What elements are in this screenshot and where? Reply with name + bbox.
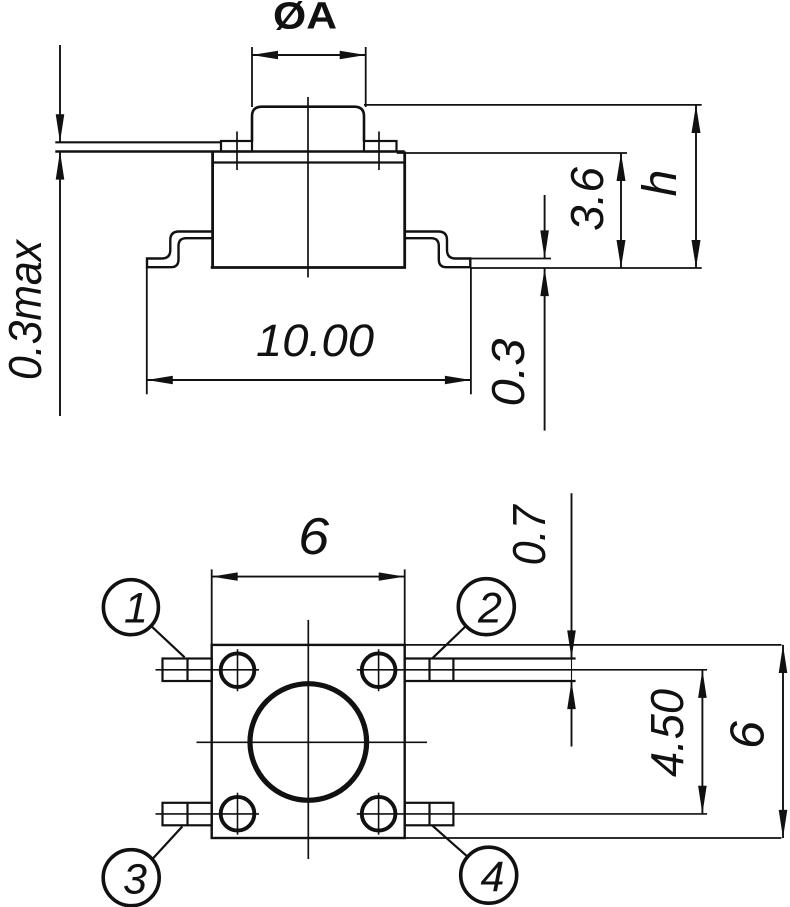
dimension 10.00 extension line left	[146, 268, 148, 394]
rivet circle bottom-left	[221, 797, 255, 831]
dimension OA line	[252, 54, 366, 56]
right cover tab	[364, 141, 397, 152]
leader 4	[432, 825, 468, 857]
rivet circle bottom-right	[362, 797, 396, 831]
OA arrow left	[252, 51, 278, 59]
0.3 arrow upper	[540, 230, 549, 258]
body right side	[403, 152, 406, 268]
body square	[212, 645, 405, 838]
svg-text:ØA: ØA	[273, 0, 337, 38]
dimension 6 right line	[782, 645, 784, 838]
lead 4 (bottom-right)	[405, 803, 454, 826]
rivet TR vertical crosshair	[378, 649, 380, 691]
dimension 4.50 line	[701, 670, 703, 814]
callout circle 3	[103, 850, 159, 906]
pin row centerline bottom-left	[156, 813, 260, 815]
svg-text:0.3: 0.3	[482, 338, 534, 406]
6 top arrow right	[379, 572, 405, 580]
left tab centerline tick	[236, 132, 238, 171]
pin row centerline top-right (also 4.50 extension)	[357, 669, 707, 671]
centerline vertical	[307, 620, 309, 859]
lead 1 (top-left)	[163, 659, 212, 682]
lead 2 divider	[428, 659, 430, 682]
center push button circle	[250, 684, 367, 801]
rivet circle top-right	[362, 653, 396, 687]
rivet BL vertical crosshair	[237, 793, 239, 835]
leader 3	[152, 827, 182, 860]
leader 1	[151, 626, 185, 658]
svg-text:3.6: 3.6	[561, 167, 613, 231]
dimension OA extension line right	[365, 47, 367, 107]
foot-top reference line for 0.3	[470, 258, 551, 260]
svg-text:10.00: 10.00	[256, 315, 374, 366]
dimension OA extension line left	[251, 47, 253, 107]
dimension 6 top: extension left	[211, 569, 213, 645]
svg-text:6: 6	[298, 508, 329, 566]
dimension 10.00 extension line right	[470, 268, 472, 394]
svg-text:6: 6	[722, 721, 775, 749]
lead 3 (bottom-left)	[163, 803, 212, 826]
4.50 arrow bottom	[698, 786, 707, 814]
0.3 arrow lower	[540, 268, 549, 296]
svg-text:0.3max: 0.3max	[0, 238, 51, 380]
dimension 0.3max upper shaft	[59, 45, 61, 142]
dimension 3.6 line	[620, 153, 622, 268]
seating plane reference line	[470, 267, 701, 269]
rivet BR vertical crosshair	[378, 793, 380, 835]
dimension 0.7 upper shaft	[571, 493, 573, 658]
lead 1 divider	[186, 659, 188, 682]
6 right arrow bottom	[779, 810, 788, 838]
4.50 arrow top	[698, 670, 707, 698]
square top edge extension (6 right dim)	[405, 644, 782, 646]
svg-text:h: h	[634, 170, 687, 197]
svg-text:2: 2	[477, 585, 502, 633]
dimension 6 top line	[212, 576, 405, 578]
dimension 0.3 lower shaft	[544, 268, 546, 431]
lead 2 (top-right) top line extended for 0.7 dim	[405, 657, 576, 659]
OA arrow right	[340, 51, 366, 59]
10.00 arrow right	[445, 376, 471, 384]
h arrow bottom	[692, 240, 701, 268]
left cover tab	[221, 141, 252, 152]
left gull-wing leg	[147, 232, 213, 268]
dimension h top reference line	[364, 104, 702, 106]
10.00 arrow left	[147, 376, 173, 384]
right gull-wing leg	[405, 232, 471, 268]
centerline vertical of side view	[307, 97, 309, 278]
lead 2 end cap	[452, 659, 454, 682]
dimension 10.00 line	[147, 379, 471, 381]
button (plunger)	[252, 107, 364, 142]
0.7 arrow lower	[567, 681, 576, 709]
dimension 6 top: extension right	[404, 569, 406, 645]
body left side	[211, 152, 214, 268]
pin row centerline top-left	[156, 669, 260, 671]
top plate upper line (body top)	[55, 150, 404, 153]
top plate lower line	[213, 161, 405, 163]
0.7 arrow upper	[567, 630, 576, 658]
rivet TL vertical crosshair	[237, 649, 239, 691]
svg-text:3: 3	[123, 856, 147, 904]
right tab centerline tick	[378, 132, 380, 171]
top-left flat lead upper line	[55, 141, 221, 143]
0.3max arrow upper	[56, 114, 65, 142]
0.3max arrow lower	[56, 152, 65, 180]
6 right arrow top	[779, 645, 788, 673]
square bottom edge extension (6 right dim)	[405, 837, 782, 839]
callout circle 2	[458, 579, 514, 635]
3.6 arrow top	[617, 153, 626, 181]
rivet circle top-left	[221, 653, 255, 687]
dimension 3.6 extension line	[397, 152, 627, 154]
callout circle 1	[103, 580, 158, 635]
h arrow top	[692, 105, 701, 133]
svg-text:4.50: 4.50	[641, 689, 693, 777]
svg-text:1: 1	[124, 585, 148, 633]
lead 4 divider	[428, 803, 430, 826]
body bottom	[211, 266, 406, 269]
centerline horizontal	[197, 741, 428, 743]
0.7 thin pass-through	[571, 648, 573, 691]
dimension 0.3 upper shaft	[544, 195, 546, 259]
dimension 0.7 lower shaft	[571, 681, 573, 747]
lead 2 bottom line extended for 0.7 dim	[405, 680, 576, 682]
dimension h line	[695, 105, 697, 268]
leader 2	[432, 626, 466, 659]
dimension 0.3max lower shaft	[59, 152, 61, 417]
callout circle 4	[461, 847, 517, 903]
lead 3 divider	[186, 803, 188, 826]
3.6 arrow bottom	[617, 240, 626, 268]
6 top arrow left	[212, 572, 238, 580]
svg-text:0.7: 0.7	[503, 504, 555, 565]
pin row centerline bottom-right (also 4.50 extension)	[357, 813, 707, 815]
svg-text:4: 4	[481, 853, 505, 901]
